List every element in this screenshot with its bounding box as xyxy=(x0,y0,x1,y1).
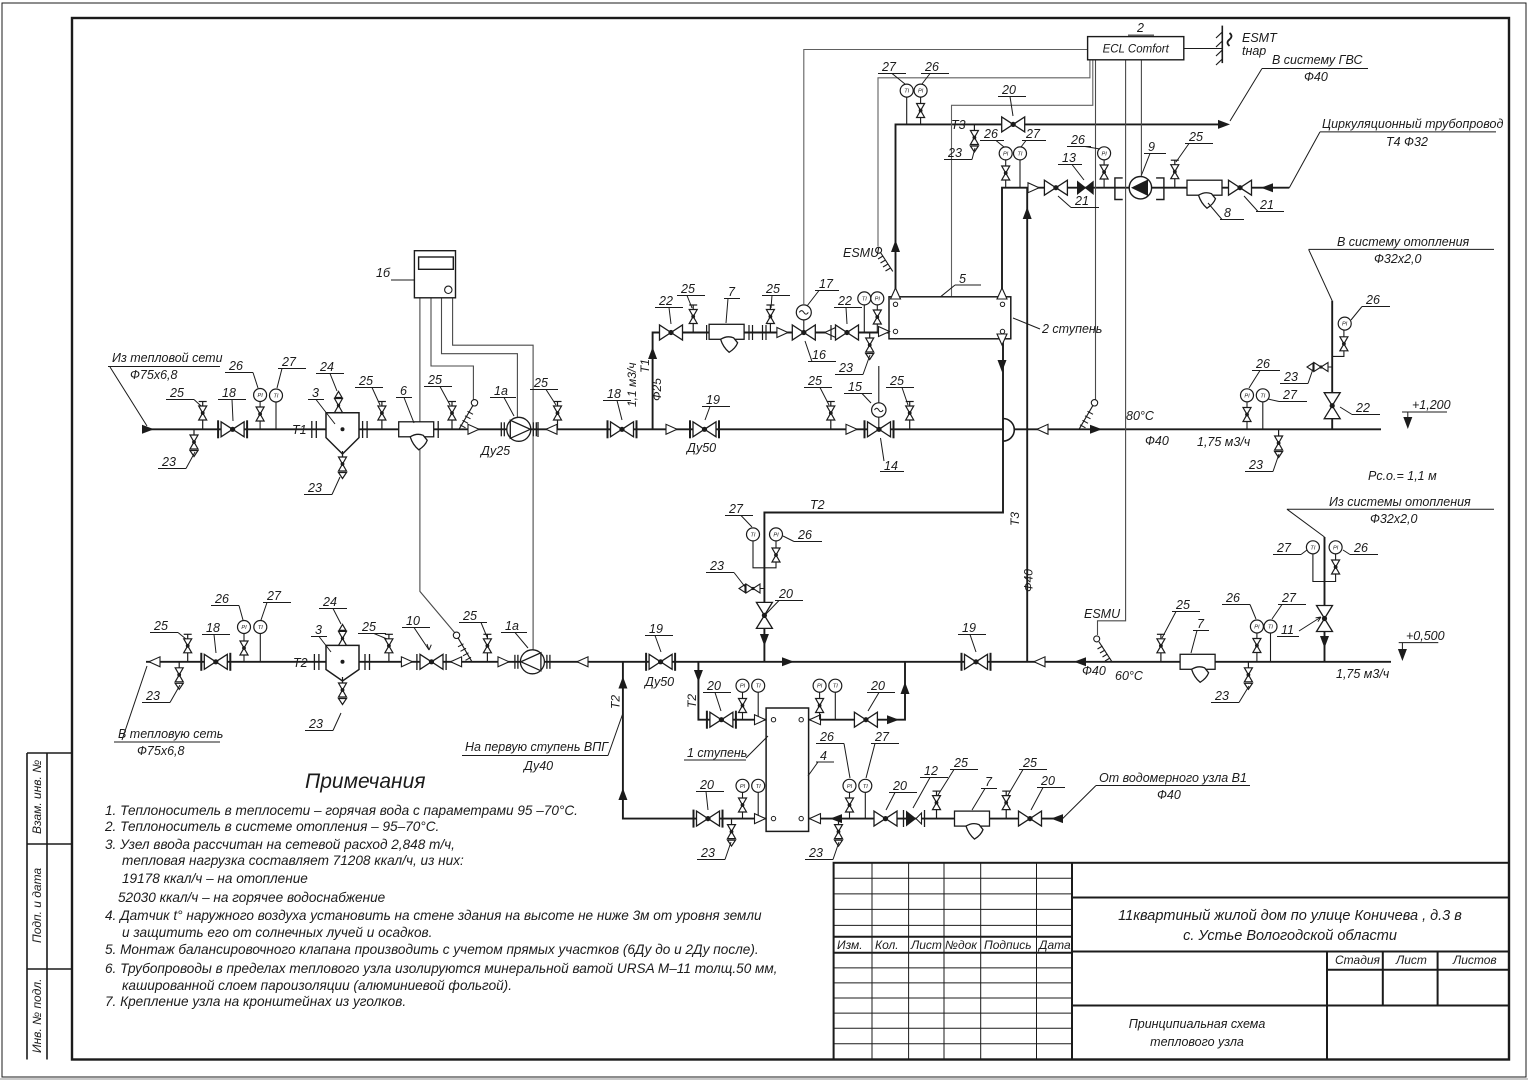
svg-text:5. Монтаж балансировочного кл: 5. Монтаж балансировочного клапана произ… xyxy=(105,942,759,957)
svg-text:14: 14 xyxy=(884,459,898,473)
flow meter 1a xyxy=(501,417,536,441)
strainer 7 xyxy=(1180,654,1215,682)
svg-text:27: 27 xyxy=(1025,127,1041,141)
flow arrow xyxy=(577,657,588,667)
open arrow up on T4 drop xyxy=(997,288,1007,299)
pipe T2 return main xyxy=(146,661,1391,663)
svg-text:Ф40: Ф40 xyxy=(1157,788,1181,802)
svg-text:В систему ГВС: В систему ГВС xyxy=(1272,53,1364,67)
flow arrow down xyxy=(760,634,769,646)
svg-text:26: 26 xyxy=(797,528,812,542)
svg-text:Из системы отопления: Из системы отопления xyxy=(1329,495,1471,509)
branch flow arrow up xyxy=(648,347,657,359)
wire ECL to ESMU sensor on T2 xyxy=(1098,60,1126,635)
valve 21 xyxy=(1229,180,1252,195)
svg-text:19178 ккал/ч – на отопление: 19178 ккал/ч – на отопление xyxy=(122,871,308,886)
svg-text:25: 25 xyxy=(169,386,184,400)
svg-text:Листов: Листов xyxy=(1452,953,1497,967)
flow arrow up on T3 riser xyxy=(1023,207,1032,219)
svg-text:25: 25 xyxy=(765,282,780,296)
svg-text:В систему отопления: В систему отопления xyxy=(1337,235,1470,249)
svg-text:26: 26 xyxy=(983,127,998,141)
svg-text:26: 26 xyxy=(1365,293,1380,307)
flow arrow at T3 junction xyxy=(1034,657,1045,667)
drain valve 23 xyxy=(866,332,874,360)
pipe T1 after hop xyxy=(1015,428,1381,430)
leader and label Ot vodomernogo uzla xyxy=(1063,786,1250,819)
svg-text:Стадия: Стадия xyxy=(1335,953,1381,967)
svg-text:25: 25 xyxy=(889,374,904,388)
svg-text:Принципиальная схема: Принципиальная схема xyxy=(1129,1017,1266,1031)
svg-text:Ф40: Ф40 xyxy=(1304,70,1328,84)
pipe branch T1 riser to upper line xyxy=(653,333,889,430)
svg-text:20: 20 xyxy=(1001,83,1016,97)
svg-text:26: 26 xyxy=(1225,591,1240,605)
valve 25 xyxy=(689,305,697,333)
pipe T4 circulation line xyxy=(1002,188,1289,297)
svg-text:25: 25 xyxy=(807,374,822,388)
svg-text:Т2: Т2 xyxy=(609,695,623,709)
svg-text:Взам. инв. №: Взам. инв. № xyxy=(30,760,44,834)
valve 20 xyxy=(1019,811,1042,826)
flow arrow to exchanger xyxy=(830,814,842,823)
flanges xyxy=(707,325,766,340)
svg-text:+1,200: +1,200 xyxy=(1412,398,1451,412)
svg-text:27: 27 xyxy=(281,355,297,369)
svg-text:1,75 м3/ч: 1,75 м3/ч xyxy=(1197,435,1251,449)
svg-text:27: 27 xyxy=(1281,591,1297,605)
svg-text:1а: 1а xyxy=(494,384,508,398)
valve 25 xyxy=(933,791,941,819)
svg-text:Т3: Т3 xyxy=(951,118,966,132)
left stamp column xyxy=(27,753,72,1060)
balancing valve 11 xyxy=(1317,606,1333,632)
flow arrow xyxy=(887,715,899,724)
mud filter 3 xyxy=(326,413,359,454)
svg-text:25: 25 xyxy=(1175,598,1190,612)
pump 9 xyxy=(1115,177,1164,200)
svg-text:+0,500: +0,500 xyxy=(1406,629,1445,643)
leader and label Na pervuyu stupen VPG xyxy=(462,713,623,756)
flow arrow up to return xyxy=(901,682,910,694)
svg-text:23: 23 xyxy=(700,846,715,860)
inlet nozzle xyxy=(755,715,766,725)
svg-text:Ф75х6,8: Ф75х6,8 xyxy=(130,368,178,382)
inlet arrow xyxy=(1051,814,1063,823)
ECL controller wires xyxy=(804,50,1093,305)
svg-text:23: 23 xyxy=(308,717,323,731)
svg-text:7: 7 xyxy=(985,775,993,789)
flow meter 1a xyxy=(515,650,550,674)
ECL Comfort controller box xyxy=(1088,37,1184,60)
svg-text:№док: №док xyxy=(945,938,978,952)
check valve xyxy=(537,422,539,437)
leader and label circulation pipe xyxy=(1289,132,1496,188)
svg-text:26: 26 xyxy=(819,730,834,744)
valve 21 xyxy=(1044,180,1067,195)
check valve 12 xyxy=(904,810,925,827)
svg-text:20: 20 xyxy=(892,779,907,793)
svg-text:1,75 м3/ч: 1,75 м3/ч xyxy=(1336,667,1390,681)
valve 22 xyxy=(660,325,683,340)
svg-text:Кол.: Кол. xyxy=(875,938,899,952)
svg-text:Ф25: Ф25 xyxy=(650,378,664,401)
gauge TI xyxy=(259,634,261,662)
svg-text:21: 21 xyxy=(1259,198,1274,212)
svg-text:Рс.о.= 1,1 м: Рс.о.= 1,1 м xyxy=(1368,469,1437,483)
svg-text:ECL Comfort: ECL Comfort xyxy=(1103,44,1170,56)
svg-text:25: 25 xyxy=(533,376,548,390)
svg-text:23: 23 xyxy=(161,455,176,469)
PIPES xyxy=(146,124,1391,818)
check valve 13 xyxy=(1078,182,1094,195)
gauge TI xyxy=(275,402,277,429)
svg-text:20: 20 xyxy=(706,679,721,693)
gauges PI TI xyxy=(742,792,744,819)
valve 25 xyxy=(827,402,835,430)
heat calculator 1b box xyxy=(414,251,455,298)
drain valve 23 xyxy=(1275,430,1283,458)
svg-text:21: 21 xyxy=(1074,194,1089,208)
flanges xyxy=(312,421,367,438)
svg-text:1 ступень: 1 ступень xyxy=(687,746,747,760)
svg-text:13: 13 xyxy=(1062,151,1076,165)
svg-text:19: 19 xyxy=(649,622,663,636)
drain valve 23 xyxy=(728,819,736,847)
svg-text:Подп. и дата: Подп. и дата xyxy=(30,868,44,943)
svg-text:27: 27 xyxy=(728,502,744,516)
svg-text:7: 7 xyxy=(728,285,736,299)
check arrow xyxy=(846,424,857,434)
svg-text:15: 15 xyxy=(848,380,862,394)
svg-text:26: 26 xyxy=(924,60,939,74)
pipe hop arc over T2 downcomer xyxy=(1003,419,1014,442)
valve 25 xyxy=(184,634,192,662)
title block header texts xyxy=(837,938,1497,967)
check arrow xyxy=(401,657,412,667)
pipe 1st stage heating outlet xyxy=(809,662,905,720)
80C thermometer xyxy=(1079,400,1098,430)
svg-text:Изм.: Изм. xyxy=(837,938,863,952)
svg-text:26: 26 xyxy=(228,359,243,373)
pipe T2 drop to 1st stage heating side xyxy=(698,662,766,720)
valve 20 top right xyxy=(854,712,877,727)
drain stub 23 xyxy=(1307,363,1328,372)
valve 25 xyxy=(199,402,207,430)
flow arrow inlet xyxy=(142,425,154,434)
svg-text:24: 24 xyxy=(319,360,334,374)
svg-text:От водомерного узла В1: От водомерного узла В1 xyxy=(1099,771,1247,785)
svg-text:25: 25 xyxy=(153,619,168,633)
svg-text:tнар: tнар xyxy=(1242,44,1266,58)
svg-text:25: 25 xyxy=(358,374,373,388)
svg-text:11: 11 xyxy=(1281,623,1294,637)
svg-text:ESMU: ESMU xyxy=(1084,607,1121,621)
flow arrow supply xyxy=(1090,425,1102,434)
svg-text:23: 23 xyxy=(947,146,962,160)
gauges TI PI above GVS line xyxy=(906,97,908,124)
svg-text:Дата: Дата xyxy=(1037,938,1071,952)
svg-text:Т2: Т2 xyxy=(293,656,308,670)
outlet nozzle xyxy=(810,715,821,725)
gauges PI TI right xyxy=(819,692,821,720)
svg-text:Ду50: Ду50 xyxy=(685,441,716,455)
svg-text:25: 25 xyxy=(680,282,695,296)
svg-text:Лист: Лист xyxy=(910,938,942,952)
svg-text:27: 27 xyxy=(1282,388,1298,402)
valve 25 xyxy=(483,634,491,662)
drain valve 23 xyxy=(190,429,198,457)
svg-text:12: 12 xyxy=(924,764,938,778)
svg-text:20: 20 xyxy=(699,778,714,792)
check arrow xyxy=(498,657,509,667)
gauge TI xyxy=(1270,633,1272,662)
svg-text:и защитить его от солнечных лу: и защитить его от солнечных лучей и осад… xyxy=(122,925,432,940)
svg-text:6: 6 xyxy=(400,384,407,398)
svg-text:20: 20 xyxy=(1040,774,1055,788)
valve 25 xyxy=(385,634,393,662)
svg-text:Примечания: Примечания xyxy=(305,770,425,793)
ESMU sensor on riser xyxy=(876,247,893,271)
pipe to VPG first stage xyxy=(623,662,766,819)
svg-text:3: 3 xyxy=(315,623,322,637)
svg-text:20: 20 xyxy=(778,587,793,601)
valve 19 xyxy=(962,653,991,671)
outlet arrow to heat net xyxy=(149,657,160,667)
drain valve 23 xyxy=(835,819,843,847)
control valve 10 xyxy=(420,654,443,669)
svg-text:23: 23 xyxy=(307,481,322,495)
svg-text:19: 19 xyxy=(706,393,720,407)
svg-text:26: 26 xyxy=(1353,541,1368,555)
svg-text:22: 22 xyxy=(1355,401,1370,415)
pipe cold water line from meter xyxy=(809,818,1063,820)
valve 19 Du50 xyxy=(646,653,675,671)
svg-text:Т1: Т1 xyxy=(292,423,307,437)
svg-text:27: 27 xyxy=(881,60,897,74)
svg-text:25: 25 xyxy=(1188,130,1203,144)
drain stub 23 xyxy=(739,584,760,593)
thermometer T2 xyxy=(453,632,472,662)
svg-text:27: 27 xyxy=(874,730,890,744)
wire heat calculator to T1 thermometer xyxy=(431,298,473,400)
flow arrow xyxy=(1074,657,1086,666)
svg-text:7. Крепление узла на кронштей: 7. Крепление узла на кронштейнах из угол… xyxy=(105,994,406,1009)
svg-text:7: 7 xyxy=(1197,617,1205,631)
flow arrow xyxy=(1028,183,1039,193)
svg-text:Т2: Т2 xyxy=(810,498,825,512)
svg-text:Из тепловой сети: Из тепловой сети xyxy=(112,351,223,365)
pipe heating supply branch xyxy=(1331,301,1333,430)
svg-text:20: 20 xyxy=(870,679,885,693)
svg-text:18: 18 xyxy=(222,386,236,400)
pipe T1 supply main xyxy=(146,428,1002,430)
filter drain valve 23 xyxy=(342,681,344,689)
svg-text:23: 23 xyxy=(145,689,160,703)
check arrow xyxy=(777,328,788,338)
strainer 8 xyxy=(1187,180,1222,208)
strainer 7 xyxy=(709,324,744,352)
valve 18 xyxy=(201,653,230,671)
2nd stage heat exchanger xyxy=(889,297,1011,339)
svg-text:2. Теплоноситель в системе от: 2. Теплоноситель в системе отопления – 9… xyxy=(104,819,439,834)
svg-text:18: 18 xyxy=(607,387,621,401)
svg-text:Ф32х2,0: Ф32х2,0 xyxy=(1370,512,1418,526)
mud filter 3 xyxy=(326,645,359,681)
svg-text:52030 ккал/ч – на горячее во: 52030 ккал/ч – на горячее водоснабжение xyxy=(118,890,386,905)
gauges PI TI at corner xyxy=(1005,160,1007,188)
leader and label Iz sistemy otopleniya xyxy=(1287,509,1494,537)
valve 20 xyxy=(874,811,897,826)
wire ECL to pump 9 xyxy=(1140,60,1142,177)
check arrow xyxy=(825,328,836,338)
gauge PI 26 xyxy=(1103,160,1105,188)
svg-text:25: 25 xyxy=(1022,756,1037,770)
svg-text:6. Трубопроводы в пределах те: 6. Трубопроводы в пределах теплового узл… xyxy=(105,961,777,976)
pipe GVS line T3 xyxy=(896,124,1226,296)
leader and label V sistemu GVS xyxy=(1230,69,1368,122)
svg-text:1. Теплоноситель в теплосети: 1. Теплоноситель в теплосети – горячая в… xyxy=(105,803,578,818)
svg-text:В тепловую сеть: В тепловую сеть xyxy=(118,727,223,741)
leader and label V teplovuyu set xyxy=(114,666,220,742)
gauge PI with cock xyxy=(1246,402,1248,429)
leader from heat net label xyxy=(108,367,220,427)
svg-text:Т4 Ф32: Т4 Ф32 xyxy=(1386,135,1428,149)
svg-text:кашированной слоем пароизоляци: кашированной слоем пароизоляции (алюмини… xyxy=(122,978,512,993)
svg-text:22: 22 xyxy=(837,294,852,308)
valve 25 xyxy=(1157,634,1165,662)
gauges PI TI xyxy=(849,792,851,819)
svg-text:25: 25 xyxy=(361,620,376,634)
valve 20 on drop xyxy=(756,602,772,628)
valve 22 on riser xyxy=(1324,393,1340,419)
title block grid xyxy=(834,863,1509,1060)
elevation mark +0,500 xyxy=(1399,643,1439,656)
drain valve 23 xyxy=(1244,662,1252,690)
vent valve 24 on filter xyxy=(339,624,347,645)
pipe T3 riser xyxy=(1026,188,1028,662)
leader and label V sistemu otopleniya xyxy=(1309,249,1494,300)
valve 25 xyxy=(906,402,914,430)
svg-text:25: 25 xyxy=(427,373,442,387)
valve 22 xyxy=(836,325,859,340)
valve 18 xyxy=(218,420,247,438)
svg-text:ESMT: ESMT xyxy=(1242,31,1278,45)
flow arrows on 2nd stage outlet xyxy=(997,334,1007,345)
thermometer T1 xyxy=(459,400,478,430)
svg-text:3. Узел ввода рассчитан на се: 3. Узел ввода рассчитан на сетевой расхо… xyxy=(105,837,455,852)
svg-text:26: 26 xyxy=(1070,133,1085,147)
svg-text:27: 27 xyxy=(266,589,282,603)
svg-text:4. Датчик t° наружного воздух: 4. Датчик t° наружного воздуха установит… xyxy=(105,908,762,923)
svg-text:18: 18 xyxy=(206,621,220,635)
inlet arrow xyxy=(1261,183,1273,192)
svg-text:23: 23 xyxy=(1283,370,1298,384)
svg-text:8: 8 xyxy=(1224,206,1231,220)
filter drain valve 23 xyxy=(342,454,344,463)
svg-text:26: 26 xyxy=(1255,357,1270,371)
valve 18 xyxy=(608,420,637,438)
pipe 2nd stage outlet down, T2 to 1st stage xyxy=(764,339,1003,662)
svg-text:4: 4 xyxy=(820,749,827,763)
valve 25 xyxy=(378,402,386,430)
svg-text:17: 17 xyxy=(819,277,834,291)
svg-text:25: 25 xyxy=(953,756,968,770)
svg-text:тепловая нагрузка составляет 7: тепловая нагрузка составляет 71208 ккал/… xyxy=(122,853,464,868)
flow arrow xyxy=(666,424,677,434)
open arrow up on riser xyxy=(891,288,901,299)
svg-text:2: 2 xyxy=(1136,21,1144,35)
svg-text:24: 24 xyxy=(322,595,337,609)
gauge PI with cock xyxy=(1256,633,1258,662)
ESMT outdoor sensor wall xyxy=(1184,26,1232,65)
wire heat calculator to T2 flow meter xyxy=(453,298,533,650)
svg-text:80°С: 80°С xyxy=(1126,409,1155,423)
svg-text:Лист: Лист xyxy=(1395,953,1427,967)
svg-text:9: 9 xyxy=(1148,140,1155,154)
svg-text:Ду25: Ду25 xyxy=(479,444,510,458)
wire ECL to 2nd stage sensor xyxy=(952,60,1093,296)
wire ECL to valve 17 actuator xyxy=(804,50,1088,305)
actuator 17 xyxy=(803,320,805,332)
outlet arrow xyxy=(1218,120,1230,129)
control valve 16 xyxy=(792,325,815,340)
wire ECL to ESMU sensor on GVS riser xyxy=(878,60,1090,247)
flow arrow xyxy=(468,424,479,434)
svg-text:Т3: Т3 xyxy=(1008,512,1022,526)
gauges TI PI bracket xyxy=(753,541,776,568)
strainer 6 xyxy=(399,422,434,450)
svg-text:ESMU: ESMU xyxy=(843,246,880,260)
svg-text:теплового узла: теплового узла xyxy=(1150,1035,1244,1049)
vent valve 24 on filter xyxy=(335,392,343,413)
strainer 7 xyxy=(955,811,990,839)
svg-text:23: 23 xyxy=(1214,689,1229,703)
svg-text:5: 5 xyxy=(959,272,966,286)
svg-text:60°С: 60°С xyxy=(1115,669,1144,683)
svg-text:19: 19 xyxy=(962,621,976,635)
wire ECL to supply 80C sensor xyxy=(1095,60,1097,400)
svg-text:25: 25 xyxy=(462,609,477,623)
svg-text:Ф40: Ф40 xyxy=(1022,569,1036,592)
gauges TI PI before exchanger xyxy=(863,305,865,332)
drain valve 23 xyxy=(970,125,978,153)
svg-text:1б: 1б xyxy=(376,266,391,280)
svg-text:27: 27 xyxy=(1276,541,1292,555)
pipe heating return branch xyxy=(1324,537,1326,662)
valve 25 xyxy=(1171,160,1179,188)
flanges xyxy=(314,654,369,670)
gauge PI 26 on riser xyxy=(1332,330,1344,356)
svg-text:10: 10 xyxy=(406,614,420,628)
svg-text:11квартиный жилой дом по улице: 11квартиный жилой дом по улице Коничева … xyxy=(1118,908,1462,924)
wire heat calculator to T2 thermometer xyxy=(420,298,455,633)
T2 drop to VPG with arrows xyxy=(618,677,627,689)
svg-text:1,1 м3/ч: 1,1 м3/ч xyxy=(625,363,639,407)
svg-text:Инв. № подл.: Инв. № подл. xyxy=(30,979,44,1053)
exchanger inlet nozzle xyxy=(879,327,890,337)
svg-text:Циркуляционный трубопровод: Циркуляционный трубопровод xyxy=(1322,117,1503,131)
svg-text:16: 16 xyxy=(812,348,826,362)
flange xyxy=(437,421,439,438)
elevation mark +1,200 xyxy=(1402,412,1447,424)
svg-text:23: 23 xyxy=(1248,458,1263,472)
svg-text:1а: 1а xyxy=(505,619,519,633)
svg-text:Ду50: Ду50 xyxy=(643,675,674,689)
svg-text:Ду40: Ду40 xyxy=(522,759,553,773)
outlet nozzle xyxy=(810,814,821,824)
flow arrow on T2 xyxy=(782,657,794,666)
